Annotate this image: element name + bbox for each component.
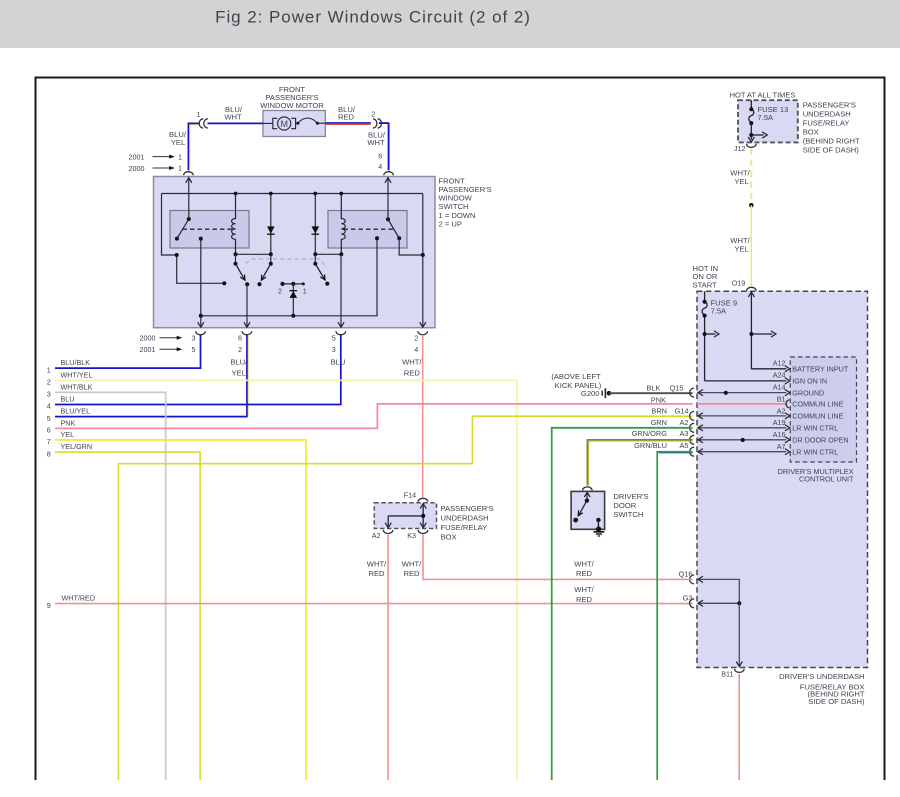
title bar bbox=[0, 0, 900, 48]
svg-text:5: 5 bbox=[332, 333, 336, 342]
diode D1 bbox=[270, 194, 272, 255]
svg-text:WHT/YEL: WHT/YEL bbox=[61, 370, 93, 379]
wire to B11 bbox=[738, 603, 740, 665]
svg-text:A14: A14 bbox=[773, 382, 786, 391]
relay K2 contact arm bbox=[388, 219, 399, 238]
svg-text:BATTERY INPUT: BATTERY INPUT bbox=[792, 365, 849, 374]
svg-text:BRN: BRN bbox=[651, 407, 667, 416]
svg-text:1: 1 bbox=[197, 110, 201, 119]
svg-text:WHT/: WHT/ bbox=[402, 358, 422, 367]
wire YEL row7 bbox=[55, 440, 306, 780]
wire WHT/YEL splice to O19 bbox=[750, 205, 752, 286]
svg-text:A3: A3 bbox=[679, 429, 688, 438]
svg-text:3: 3 bbox=[47, 390, 51, 399]
relay K1 box bbox=[170, 211, 249, 249]
svg-text:LR WIN CTRL: LR WIN CTRL bbox=[792, 448, 838, 457]
svg-text:START: START bbox=[693, 281, 718, 290]
svg-text:A7: A7 bbox=[777, 442, 786, 451]
row numbers bbox=[47, 365, 51, 609]
svg-text:(BEHIND RIGHT: (BEHIND RIGHT bbox=[803, 136, 860, 145]
wire BLU/YEL down to switch pin 1 bbox=[187, 123, 189, 171]
svg-text:6: 6 bbox=[238, 333, 242, 342]
rocker arm right bbox=[315, 264, 325, 280]
wire pin1 to relay K1 bbox=[188, 178, 190, 220]
wire YEL/GRN row8 bbox=[55, 452, 200, 780]
motor M1 symbol bbox=[263, 117, 325, 130]
multiplex function labels bbox=[792, 365, 849, 457]
connector A2 bbox=[383, 530, 393, 534]
svg-text:7.5A: 7.5A bbox=[711, 306, 728, 315]
wire BLU/YEL pin6 to row5 bbox=[55, 335, 248, 416]
switch bottom connectors bbox=[196, 331, 206, 335]
door switch contact arm bbox=[584, 492, 590, 497]
wire BRN branch to G14 bbox=[118, 416, 692, 780]
svg-text:B1: B1 bbox=[777, 394, 786, 403]
svg-text:FUSE/RELAY: FUSE/RELAY bbox=[441, 523, 488, 532]
svg-text:7: 7 bbox=[47, 437, 51, 446]
svg-text:YEL: YEL bbox=[734, 177, 748, 186]
svg-text:YEL: YEL bbox=[734, 245, 748, 254]
svg-text:HOT AT ALL TIMES: HOT AT ALL TIMES bbox=[730, 91, 796, 100]
wire pin2 column bbox=[422, 255, 424, 327]
wire BLU/WHT down to switch pin 4/6 bbox=[379, 122, 389, 124]
year labels bottom bbox=[140, 333, 419, 354]
svg-text:1: 1 bbox=[178, 152, 182, 161]
wire PNK inside box to B1 bbox=[697, 403, 788, 405]
svg-text:WHT/RED: WHT/RED bbox=[62, 594, 96, 603]
svg-text:CONTROL UNIT: CONTROL UNIT bbox=[799, 475, 854, 484]
svg-text:1: 1 bbox=[303, 286, 307, 295]
wire WHT/RED row9 to G3 bbox=[55, 603, 693, 605]
relay K2 box bbox=[328, 211, 407, 249]
svg-text:WHT/: WHT/ bbox=[402, 559, 422, 568]
svg-text:G3: G3 bbox=[683, 593, 693, 602]
svg-text:WHT: WHT bbox=[224, 113, 242, 122]
svg-text:BLU: BLU bbox=[61, 395, 75, 404]
driver underdash label bbox=[779, 672, 865, 706]
svg-text:DRIVER'S: DRIVER'S bbox=[613, 492, 648, 501]
svg-text:WHT/BLK: WHT/BLK bbox=[61, 382, 93, 391]
svg-text:4: 4 bbox=[378, 162, 382, 171]
internal wire row A16 bbox=[699, 439, 786, 441]
rocker contact stems bbox=[235, 254, 237, 263]
F14 internal wires bbox=[388, 504, 423, 526]
svg-text:3: 3 bbox=[332, 345, 336, 354]
svg-text:6: 6 bbox=[47, 426, 51, 435]
bottom internal bus bbox=[201, 238, 377, 315]
wire relay K1 arm to dead contact bbox=[177, 255, 225, 283]
svg-text:4: 4 bbox=[414, 345, 418, 354]
outside wire labels bbox=[632, 383, 693, 602]
connector B11 bbox=[735, 669, 745, 673]
splice bbox=[749, 203, 754, 208]
svg-text:GRN/BLU: GRN/BLU bbox=[634, 441, 667, 450]
svg-text:FUSE/RELAY: FUSE/RELAY bbox=[803, 118, 850, 127]
connector 2 inline bbox=[373, 119, 377, 128]
connector 1 inline bbox=[199, 119, 203, 128]
svg-text:PNK: PNK bbox=[61, 418, 76, 427]
G3 internal wire bbox=[699, 602, 739, 604]
svg-text:2: 2 bbox=[414, 333, 418, 342]
svg-text:A12: A12 bbox=[773, 358, 786, 367]
svg-text:SIDE OF DASH): SIDE OF DASH) bbox=[808, 697, 865, 706]
wire GRN/ORG to A3 / door switch bbox=[587, 440, 692, 486]
svg-text:UNDERDASH: UNDERDASH bbox=[803, 109, 851, 118]
svg-text:5: 5 bbox=[47, 414, 51, 423]
relay K1 coil bbox=[232, 194, 236, 255]
svg-text:RED: RED bbox=[403, 569, 420, 578]
internal wire row A19 bbox=[699, 427, 786, 429]
F14 box label bbox=[441, 504, 494, 542]
svg-text:WHT: WHT bbox=[367, 138, 385, 147]
inner bus left bbox=[162, 194, 177, 256]
connector door switch bbox=[583, 487, 593, 490]
svg-text:A2: A2 bbox=[679, 418, 688, 427]
inner bus right bbox=[422, 194, 424, 256]
internal wire row A7 bbox=[699, 451, 786, 453]
svg-text:Q15: Q15 bbox=[670, 383, 684, 392]
connector F14 bbox=[418, 498, 428, 501]
fuse F13 bbox=[750, 100, 752, 109]
svg-text:G200: G200 bbox=[581, 389, 600, 398]
rocker linkage dashed bbox=[246, 259, 327, 268]
svg-text:GROUND: GROUND bbox=[792, 388, 824, 397]
connector switch pin 1 bbox=[184, 172, 194, 175]
svg-text:2: 2 bbox=[371, 109, 375, 118]
driver door switch box bbox=[571, 491, 605, 529]
svg-text:WHT/: WHT/ bbox=[367, 559, 387, 568]
svg-text:2: 2 bbox=[47, 378, 51, 387]
svg-text:DRIVER'S UNDERDASH: DRIVER'S UNDERDASH bbox=[779, 672, 864, 681]
wire WHT/RED A2 down bbox=[387, 535, 389, 781]
wire WHT/YEL J12 dashed bbox=[750, 149, 752, 205]
svg-text:J12: J12 bbox=[734, 144, 746, 153]
relay K1 contact arm bbox=[177, 219, 189, 239]
bottom wire labels bbox=[230, 358, 422, 378]
diode D3 center bbox=[292, 284, 294, 316]
svg-text:BLU/YEL: BLU/YEL bbox=[61, 407, 91, 416]
connector O19 arc bbox=[747, 287, 757, 291]
svg-text:3: 3 bbox=[192, 333, 196, 342]
svg-text:5: 5 bbox=[192, 345, 196, 354]
connector K3 bbox=[418, 530, 428, 533]
multiplex left edge connector arcs bbox=[690, 388, 695, 608]
svg-text:PNK: PNK bbox=[651, 396, 666, 405]
svg-text:2000: 2000 bbox=[140, 333, 156, 342]
WHT/RED labels bbox=[367, 559, 595, 604]
svg-text:A5: A5 bbox=[679, 441, 688, 450]
svg-text:2 = UP: 2 = UP bbox=[439, 219, 462, 228]
year labels pin 1 bbox=[129, 152, 183, 173]
svg-text:A2: A2 bbox=[372, 531, 381, 540]
svg-text:A16: A16 bbox=[773, 430, 786, 439]
connector B1 arc bbox=[786, 400, 789, 408]
svg-text:GRN: GRN bbox=[651, 418, 667, 427]
svg-text:A24: A24 bbox=[773, 370, 786, 379]
rocker arm left-down bbox=[236, 264, 245, 281]
wire fuse9 to IGN ON IN bbox=[705, 380, 787, 382]
svg-text:BOX: BOX bbox=[441, 533, 457, 542]
svg-text:2001: 2001 bbox=[129, 152, 145, 161]
svg-text:PASSENGER'S: PASSENGER'S bbox=[803, 100, 856, 109]
door switch ground contact bbox=[596, 518, 600, 522]
wire GRN/BLU to A5 bbox=[657, 452, 692, 780]
svg-text:YEL/GRN: YEL/GRN bbox=[61, 442, 93, 451]
node pair left bbox=[236, 253, 271, 255]
fuse F9 bbox=[704, 291, 706, 302]
svg-text:BLU/: BLU/ bbox=[230, 358, 248, 367]
svg-text:BOX: BOX bbox=[803, 127, 819, 136]
svg-text:COMMUN LINE: COMMUN LINE bbox=[792, 412, 843, 421]
svg-text:WHT/: WHT/ bbox=[574, 559, 594, 568]
svg-text:(ABOVE LEFT: (ABOVE LEFT bbox=[551, 372, 601, 381]
svg-text:9: 9 bbox=[47, 601, 51, 610]
svg-text:F14: F14 bbox=[404, 491, 416, 500]
svg-text:O19: O19 bbox=[732, 279, 746, 288]
wire WHT/BLK row3 bbox=[55, 392, 166, 780]
svg-text:YEL: YEL bbox=[171, 138, 185, 147]
svg-text:DR DOOR OPEN: DR DOOR OPEN bbox=[792, 436, 848, 445]
svg-text:RED: RED bbox=[576, 595, 593, 604]
svg-text:1: 1 bbox=[47, 365, 51, 374]
wire BLU pin5 to row4 bbox=[55, 335, 341, 405]
row labels bbox=[61, 358, 96, 602]
svg-text:WINDOW MOTOR: WINDOW MOTOR bbox=[260, 101, 324, 110]
svg-text:UNDERDASH: UNDERDASH bbox=[441, 513, 489, 522]
wire WHT/RED pin2 to F14 bbox=[422, 335, 424, 498]
svg-text:YEL: YEL bbox=[232, 368, 246, 377]
motor brush contacts bbox=[296, 122, 299, 125]
svg-text:M: M bbox=[280, 119, 288, 129]
svg-text:BLU/BLK: BLU/BLK bbox=[61, 358, 91, 367]
wire pin5 column bbox=[340, 254, 342, 327]
svg-text:DOOR: DOOR bbox=[613, 501, 636, 510]
wire WHT/RED K3 to Q16 bbox=[423, 535, 693, 580]
driver multiplex control unit box bbox=[697, 291, 868, 667]
svg-text:Fig 2: Power Windows Circuit (: Fig 2: Power Windows Circuit (2 of 2) bbox=[215, 8, 531, 27]
node pair right bbox=[315, 253, 341, 255]
wire pin4/6 to relay K2 bbox=[387, 178, 389, 220]
svg-text:COMMUN LINE: COMMUN LINE bbox=[792, 400, 843, 409]
driver door switch label bbox=[613, 492, 648, 519]
wire BLK G200 to Q15 bbox=[609, 392, 693, 394]
multiplex pin labels bbox=[773, 358, 786, 451]
wire WHT/RED B11 down bbox=[738, 674, 740, 780]
rocker arm left-up bbox=[261, 264, 270, 281]
svg-text:2001: 2001 bbox=[140, 345, 156, 354]
internal wire row GROUND bbox=[699, 392, 786, 394]
fuse 9 branch arrow bbox=[703, 332, 707, 336]
svg-text:BLU: BLU bbox=[331, 358, 346, 367]
relay K2 linkage dashed bbox=[344, 228, 395, 230]
svg-text:2000: 2000 bbox=[129, 164, 145, 173]
wire BLU/BLK pin3 to row1 bbox=[55, 335, 201, 368]
svg-text:1: 1 bbox=[178, 164, 182, 173]
wire relay K2 arm to pin2 bus bbox=[399, 238, 423, 255]
multiplex inner unit box bbox=[790, 357, 856, 462]
box label right bbox=[803, 100, 860, 154]
svg-text:6: 6 bbox=[378, 151, 382, 160]
wire WHT/YEL row2 bbox=[55, 380, 517, 780]
svg-text:RED: RED bbox=[576, 569, 593, 578]
Q16 internal wire bbox=[699, 579, 739, 603]
svg-text:Q16: Q16 bbox=[679, 570, 693, 579]
svg-text:A2: A2 bbox=[777, 406, 786, 415]
svg-text:A19: A19 bbox=[773, 418, 786, 427]
inner bus top bbox=[162, 193, 423, 195]
svg-text:4: 4 bbox=[47, 402, 51, 411]
connector switch pin 4/6 bbox=[384, 172, 394, 176]
motor M1 box bbox=[263, 111, 325, 137]
svg-text:G14: G14 bbox=[675, 407, 689, 416]
svg-text:RED: RED bbox=[338, 113, 355, 122]
svg-text:SIDE OF DASH): SIDE OF DASH) bbox=[803, 145, 860, 154]
svg-text:GRN/ORG: GRN/ORG bbox=[632, 429, 668, 438]
svg-text:YEL: YEL bbox=[61, 430, 75, 439]
svg-text:PASSENGER'S: PASSENGER'S bbox=[441, 504, 494, 513]
fuse 13 branch arrow bbox=[751, 134, 763, 136]
svg-text:RED: RED bbox=[404, 368, 421, 377]
diode D2 bbox=[314, 194, 316, 255]
svg-text:B11: B11 bbox=[721, 670, 733, 679]
svg-text:BLK: BLK bbox=[647, 383, 661, 392]
HOT IN ON OR START bbox=[693, 264, 719, 289]
svg-text:WHT/: WHT/ bbox=[574, 585, 594, 594]
front passenger window switch box bbox=[154, 177, 436, 328]
svg-text:2: 2 bbox=[238, 345, 242, 354]
relay K1 linkage dashed bbox=[183, 228, 234, 230]
svg-text:8: 8 bbox=[47, 449, 51, 458]
svg-text:K3: K3 bbox=[407, 531, 416, 540]
front passenger window motor label bbox=[260, 85, 324, 110]
wire pin6 column bbox=[246, 284, 248, 327]
fuse 13 exit arrow bbox=[748, 137, 754, 142]
wire GRN to A2 bbox=[552, 428, 693, 780]
wire O19 to BATTERY INPUT bbox=[748, 292, 754, 297]
svg-text:2: 2 bbox=[278, 286, 282, 295]
center contact bar bbox=[283, 283, 304, 285]
svg-text:7.5A: 7.5A bbox=[758, 113, 775, 122]
passenger underdash fuse/relay box (top) bbox=[738, 100, 798, 142]
passenger underdash fuse/relay box F14 bbox=[374, 503, 436, 529]
svg-text:IGN ON IN: IGN ON IN bbox=[792, 377, 827, 386]
wire relay K1 common to pin 3 bbox=[200, 239, 202, 327]
svg-text:SWITCH: SWITCH bbox=[613, 510, 643, 519]
ground G200 bbox=[551, 372, 611, 398]
svg-text:LR WIN CTRL: LR WIN CTRL bbox=[792, 424, 838, 433]
wire PNK row6 bbox=[55, 404, 693, 429]
svg-text:RED: RED bbox=[368, 569, 385, 578]
relay K2 coil bbox=[341, 194, 345, 255]
ground symbol door switch bbox=[594, 532, 605, 536]
switch side label bbox=[439, 176, 492, 228]
O19 branch arrow bbox=[749, 332, 753, 336]
connector J12 bbox=[747, 144, 757, 148]
wire BLU/RED motor right bbox=[325, 122, 370, 124]
wire BLU/WHT motor left bbox=[208, 122, 264, 124]
internal wire row COMMUN A2 bbox=[699, 415, 786, 417]
